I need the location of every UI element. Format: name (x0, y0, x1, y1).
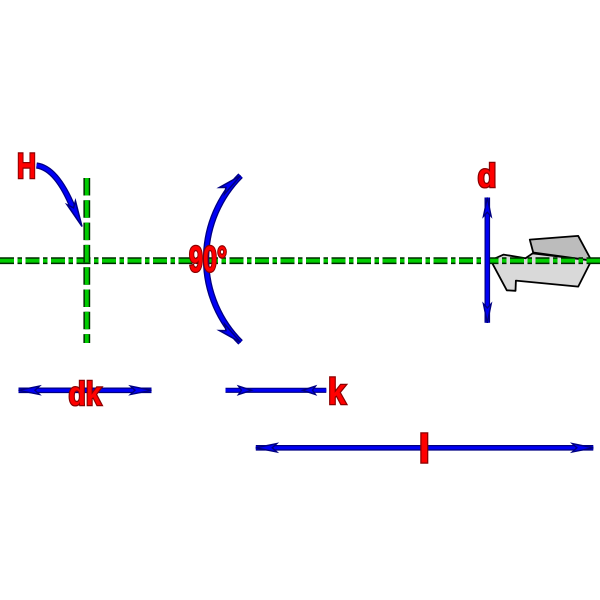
blue l dimension line (256, 444, 594, 452)
svg-text:90°: 90° (189, 239, 227, 280)
grey drill body (front face) (491, 253, 592, 290)
svg-text:dk: dk (69, 375, 103, 412)
green horizontal center line (0, 257, 600, 264)
svg-text:k: k (328, 371, 347, 412)
svg-text:l: l (419, 428, 430, 472)
blue k dimension line (arrows inward) (226, 386, 327, 394)
svg-text:H: H (17, 147, 36, 186)
blue H arrow (37, 166, 87, 229)
blue d dimension line (vertical) (483, 198, 491, 323)
green vertical dashed line (83, 178, 90, 343)
red labels (17, 147, 497, 472)
blue dk dimension line (19, 386, 152, 394)
grey drill top facet (530, 236, 592, 261)
blue arc with arrowheads (90 degrees) (206, 172, 243, 345)
svg-text:d: d (478, 157, 497, 194)
